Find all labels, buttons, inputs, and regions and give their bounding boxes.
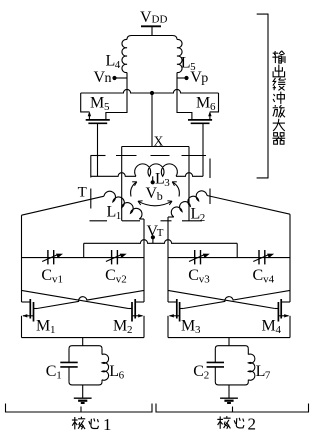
svg-text:n: n	[105, 71, 112, 86]
svg-text:V: V	[146, 185, 158, 202]
svg-text:p: p	[201, 71, 208, 86]
svg-text:C: C	[253, 267, 264, 284]
svg-text:T: T	[78, 184, 87, 200]
svg-text:M: M	[36, 318, 50, 335]
svg-text:4: 4	[115, 59, 121, 71]
svg-text:v2: v2	[116, 273, 127, 285]
svg-text:M: M	[113, 318, 127, 335]
svg-text:v4: v4	[263, 273, 275, 285]
svg-text:C: C	[188, 267, 199, 284]
svg-text:C: C	[41, 267, 52, 284]
svg-text:M: M	[262, 318, 276, 335]
svg-text:6: 6	[210, 101, 216, 113]
svg-text:4: 4	[276, 324, 282, 336]
svg-text:1: 1	[50, 324, 56, 336]
svg-text:T: T	[157, 227, 164, 239]
svg-text:C: C	[105, 267, 116, 284]
svg-text:2: 2	[248, 414, 257, 432]
svg-text:M: M	[90, 94, 104, 111]
svg-text:C: C	[46, 363, 57, 380]
svg-text:6: 6	[119, 369, 125, 381]
svg-text:v3: v3	[199, 273, 211, 285]
svg-text:v1: v1	[52, 273, 63, 285]
svg-text:X: X	[154, 133, 164, 148]
svg-text:3: 3	[195, 324, 201, 336]
svg-text:2: 2	[127, 324, 133, 336]
svg-text:DD: DD	[152, 13, 168, 25]
svg-text:M: M	[196, 94, 210, 111]
svg-text:V: V	[140, 9, 152, 26]
svg-text:M: M	[181, 318, 195, 335]
svg-text:5: 5	[104, 101, 110, 113]
svg-text:1: 1	[103, 415, 112, 432]
svg-text:b: b	[157, 189, 163, 203]
svg-text:3: 3	[164, 177, 170, 189]
svg-text:2: 2	[204, 369, 210, 381]
svg-text:C: C	[193, 363, 204, 380]
svg-text:7: 7	[265, 369, 271, 381]
svg-text:1: 1	[116, 210, 122, 222]
svg-text:2: 2	[200, 212, 206, 224]
svg-text:1: 1	[56, 369, 62, 381]
